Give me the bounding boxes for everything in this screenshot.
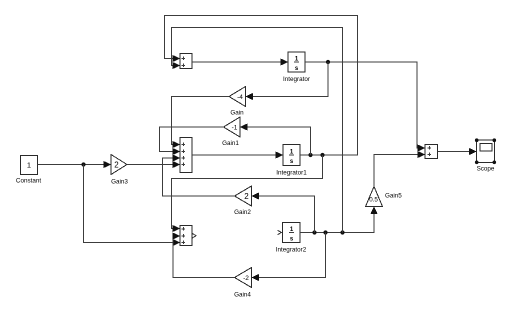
junction node on Integrator output	[326, 60, 330, 64]
integrator block Integrator	[283, 52, 310, 83]
wire Sum1 to Integrator1	[192, 151, 283, 158]
junction node on Integrator2 output (to Gain4)	[323, 230, 327, 234]
sum block Sum1 (4 inputs)	[180, 138, 192, 173]
svg-text:-2: -2	[243, 275, 249, 282]
sum block Add (2 inputs)	[425, 145, 438, 159]
constant block Constant	[16, 156, 41, 185]
gain Gain1 (-1, points left)	[222, 117, 240, 147]
gain Gain2 (2, points left)	[234, 186, 251, 216]
wire Constant branch down to Sum2 input 3	[84, 165, 181, 247]
svg-text:Integrator: Integrator	[283, 76, 310, 83]
wire Gain4 output to Sum2 input 2	[173, 232, 235, 277]
wire Add output to Scope	[438, 148, 477, 155]
wire Integrator branch down to Gain input	[246, 62, 329, 100]
svg-text:Scope: Scope	[477, 166, 495, 173]
gain Gain3	[111, 155, 128, 186]
junction node on Integrator1 output (to Gain1)	[308, 153, 312, 157]
svg-text:-1: -1	[232, 125, 238, 132]
wire Integrator1 branch up to Gain1 input	[240, 123, 311, 155]
wire Integrator2 branch up to Sum input 2	[172, 28, 343, 233]
svg-text:2: 2	[244, 192, 249, 201]
wire Sum to Integrator	[192, 58, 288, 65]
junction node on Constant output	[81, 162, 85, 166]
wire Constant to Gain3	[38, 161, 112, 168]
junction node on Integrator2 output (to Sum)	[340, 230, 344, 234]
scope block Scope	[475, 138, 496, 172]
unconnected output port of Sum2	[193, 234, 197, 238]
integrator block Integrator1	[276, 145, 307, 177]
wire Integrator output to Add input 1	[305, 62, 425, 152]
svg-text:Gain2: Gain2	[234, 209, 251, 216]
wire Integrator2 branch down to Gain4 input	[252, 233, 326, 282]
unconnected input port of Integrator2	[278, 230, 282, 234]
svg-text:Integrator2: Integrator2	[276, 247, 307, 254]
wire Gain5 output to Add input 2	[374, 151, 425, 187]
sum block Sum (top, 2 inputs)	[180, 54, 192, 69]
wire Integrator2 output to Gain5 input	[300, 207, 378, 233]
junction node on Integrator2 output (to Gain2)	[312, 230, 316, 234]
svg-text:2: 2	[114, 161, 119, 170]
svg-text:Constant: Constant	[16, 178, 41, 185]
wire Integrator1 output feedback to Sum input 1	[165, 16, 358, 156]
svg-text:0.5: 0.5	[369, 197, 378, 204]
svg-text:Gain: Gain	[230, 110, 244, 117]
svg-text:Integrator1: Integrator1	[276, 170, 307, 177]
sum block Sum2 (3 inputs, output unconnected)	[180, 226, 192, 246]
integrator block Integrator2 (input unconnected)	[276, 223, 307, 254]
svg-text:Gain5: Gain5	[385, 193, 402, 200]
gain Gain5 (0.5, points up)	[366, 187, 403, 207]
svg-text:Gain4: Gain4	[234, 292, 251, 299]
svg-text:Gain3: Gain3	[111, 179, 128, 186]
gain Gain (-4, points left)	[229, 87, 246, 117]
svg-text:1: 1	[27, 161, 31, 170]
gain Gain4 (-2, points left)	[234, 268, 251, 299]
wire Gain1 output to Sum1 input 2	[160, 127, 224, 155]
wire Integrator2 branch up to Gain2 input	[252, 192, 315, 232]
wire Gain output to Sum1 input 1	[172, 97, 230, 149]
junction node on Integrator1 output (to Sum2)	[320, 153, 324, 157]
svg-text:Gain1: Gain1	[222, 140, 239, 147]
wire Gain2 output to Sum1 input 3	[163, 154, 235, 196]
svg-text:-4: -4	[237, 94, 243, 101]
wire Gain3 to Sum1 input 4	[127, 161, 180, 168]
wire Integrator1 branch down to Sum2 input 1	[172, 155, 323, 232]
